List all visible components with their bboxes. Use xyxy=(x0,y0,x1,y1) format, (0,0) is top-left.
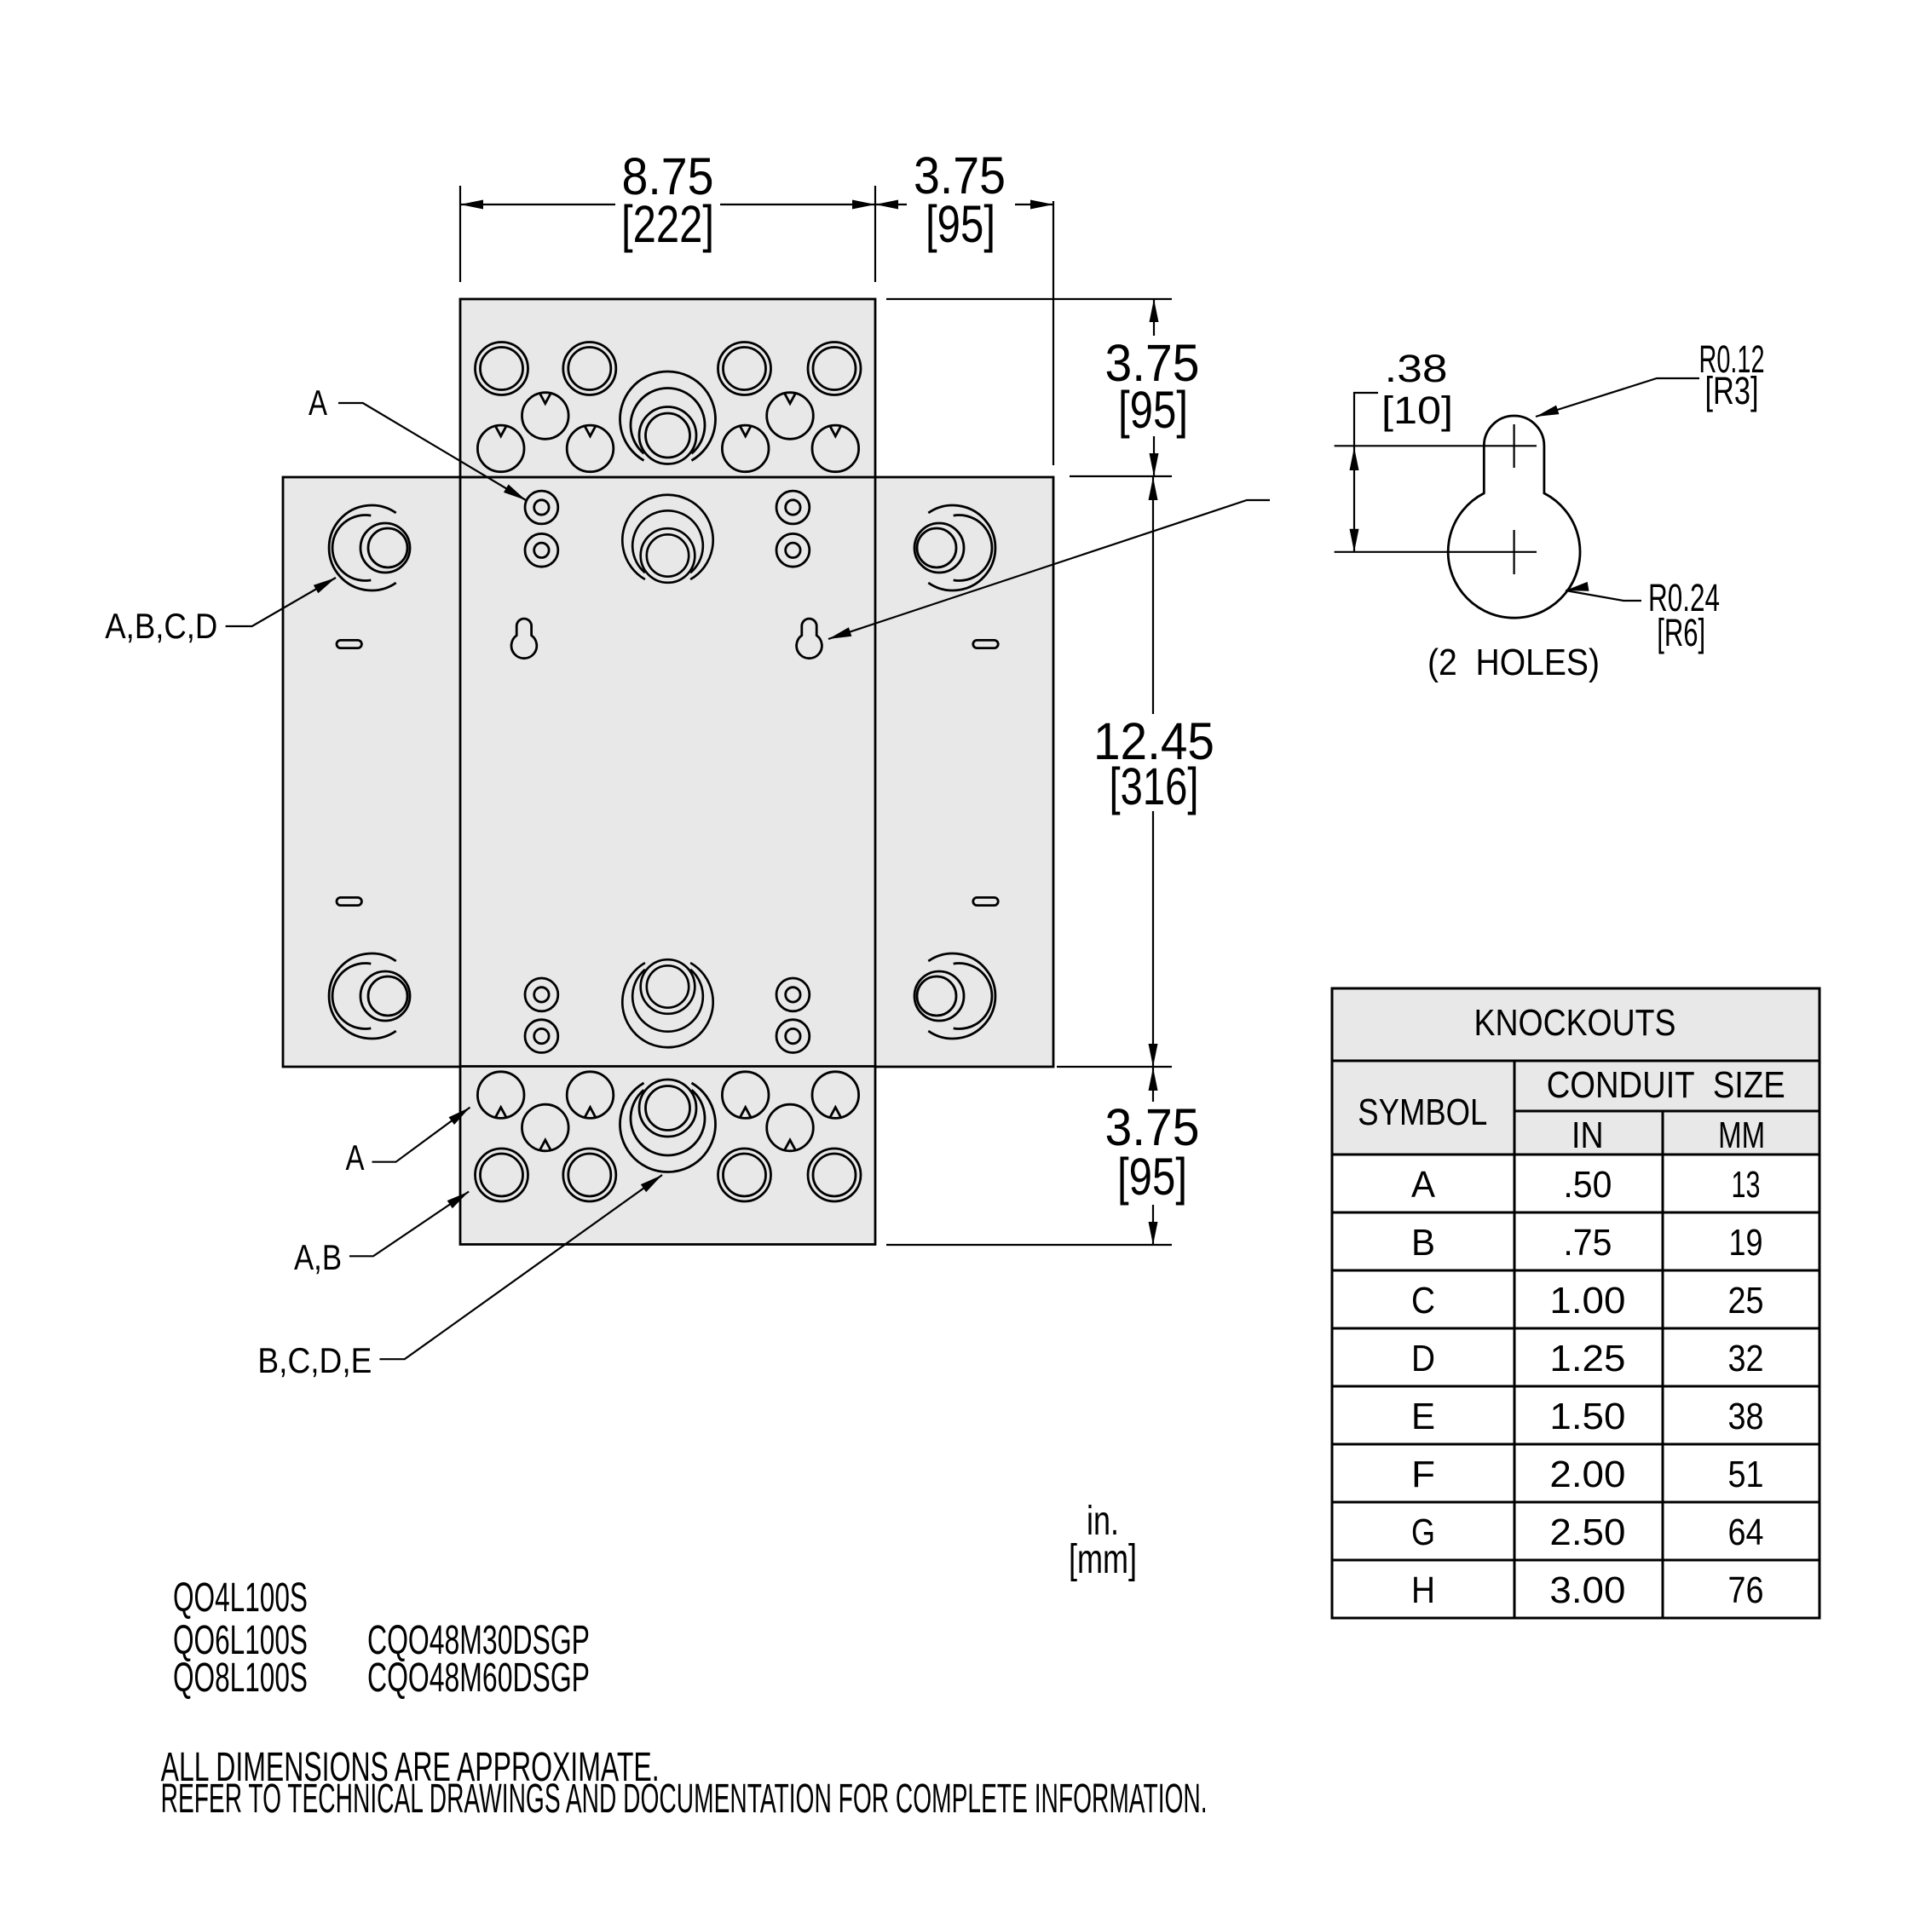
svg-text:19: 19 xyxy=(1729,1223,1763,1264)
svg-text:1.00: 1.00 xyxy=(1549,1281,1625,1322)
svg-text:.50: .50 xyxy=(1563,1165,1612,1206)
svg-text:H: H xyxy=(1411,1570,1435,1611)
svg-text:1.25: 1.25 xyxy=(1549,1339,1625,1379)
svg-text:[222]: [222] xyxy=(621,195,714,253)
svg-text:A,B,C,D: A,B,C,D xyxy=(105,606,217,646)
svg-text:2.50: 2.50 xyxy=(1549,1512,1625,1553)
svg-text:A: A xyxy=(346,1137,365,1178)
svg-text:IN: IN xyxy=(1572,1115,1604,1156)
svg-text:13: 13 xyxy=(1732,1165,1761,1206)
svg-text:A,B: A,B xyxy=(294,1237,342,1277)
svg-text:[R3]: [R3] xyxy=(1705,369,1759,412)
svg-text:25: 25 xyxy=(1728,1281,1764,1322)
svg-text:[95]: [95] xyxy=(1118,381,1188,439)
svg-text:64: 64 xyxy=(1728,1512,1764,1553)
svg-text:REFER TO TECHNICAL DRAWINGS AN: REFER TO TECHNICAL DRAWINGS AND DOCUMENT… xyxy=(161,1776,1208,1822)
svg-text:A: A xyxy=(1411,1165,1435,1206)
svg-text:[10]: [10] xyxy=(1381,389,1453,432)
svg-text:(2 HOLES): (2 HOLES) xyxy=(1427,642,1600,683)
svg-text:CQO48M60DSGP: CQO48M60DSGP xyxy=(367,1655,590,1701)
svg-text:[mm]: [mm] xyxy=(1069,1537,1137,1582)
svg-text:.38: .38 xyxy=(1385,347,1448,390)
svg-text:3.00: 3.00 xyxy=(1549,1570,1625,1611)
svg-text:F: F xyxy=(1411,1454,1435,1495)
svg-text:QO8L100S: QO8L100S xyxy=(173,1655,308,1701)
svg-text:51: 51 xyxy=(1728,1454,1764,1495)
svg-text:D: D xyxy=(1411,1339,1435,1379)
svg-text:[316]: [316] xyxy=(1110,757,1199,815)
svg-text:MM: MM xyxy=(1718,1115,1765,1156)
svg-text:1.50: 1.50 xyxy=(1549,1396,1625,1437)
svg-text:CONDUIT SIZE: CONDUIT SIZE xyxy=(1547,1065,1785,1106)
svg-text:A: A xyxy=(309,383,327,423)
svg-text:G: G xyxy=(1411,1512,1435,1553)
svg-text:.75: .75 xyxy=(1563,1223,1612,1264)
svg-text:[R6]: [R6] xyxy=(1657,611,1705,654)
svg-text:38: 38 xyxy=(1728,1396,1764,1437)
svg-text:32: 32 xyxy=(1728,1339,1764,1379)
svg-text:C: C xyxy=(1411,1281,1435,1322)
svg-text:[95]: [95] xyxy=(1117,1148,1187,1206)
svg-text:SYMBOL: SYMBOL xyxy=(1358,1092,1487,1133)
svg-text:[95]: [95] xyxy=(926,195,995,253)
svg-text:QO4L100S: QO4L100S xyxy=(173,1575,308,1621)
svg-text:KNOCKOUTS: KNOCKOUTS xyxy=(1474,1003,1676,1044)
svg-text:76: 76 xyxy=(1728,1570,1764,1611)
svg-text:E: E xyxy=(1411,1396,1435,1437)
svg-text:B: B xyxy=(1411,1223,1435,1264)
svg-text:2.00: 2.00 xyxy=(1549,1454,1625,1495)
svg-text:B,C,D,E: B,C,D,E xyxy=(257,1340,372,1380)
